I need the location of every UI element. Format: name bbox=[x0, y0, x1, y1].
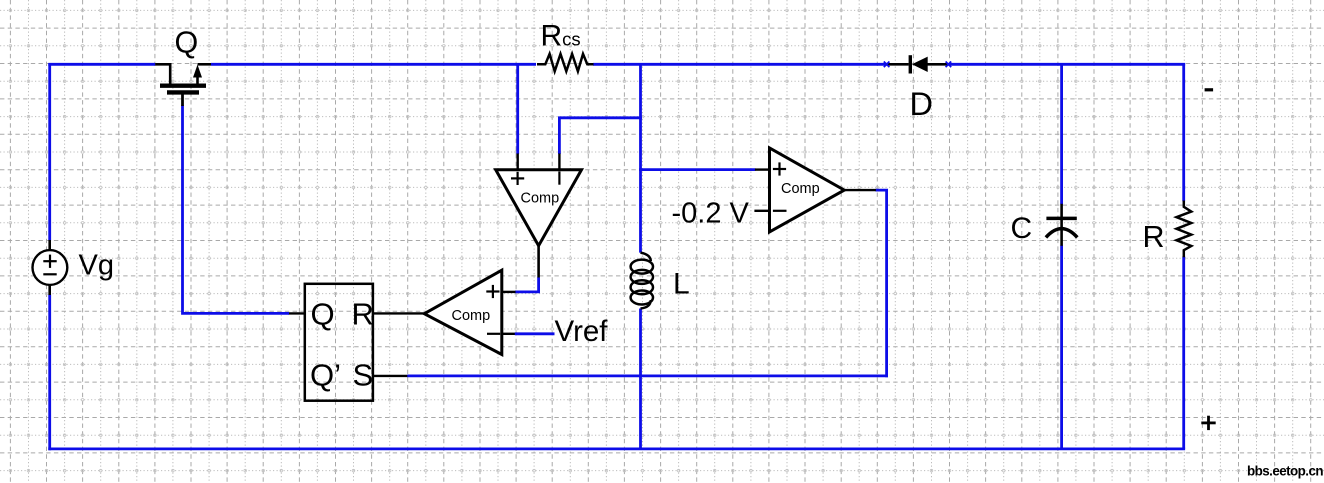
node marker diode cathode bbox=[946, 62, 952, 68]
inductor L bbox=[631, 253, 653, 309]
wire top rail segment 4 bbox=[948, 63, 1185, 66]
wire latch S input line bbox=[373, 375, 408, 377]
transistor Q bbox=[155, 64, 211, 106]
diode D bbox=[887, 55, 948, 73]
SR latch U4 bbox=[305, 284, 373, 401]
svg-text:L: L bbox=[673, 268, 690, 301]
output terminal plus bbox=[1201, 421, 1215, 424]
voltage source Vg bbox=[33, 240, 68, 295]
wire top rail segment 3 bbox=[593, 63, 887, 66]
wire top rail segment 1 bbox=[48, 63, 155, 66]
wire top rail segment 2 bbox=[211, 63, 536, 66]
wire right rail bbox=[1182, 63, 1185, 449]
wire comparator U2 output to latch R bbox=[373, 312, 426, 314]
svg-text:-0.2 V: -0.2 V bbox=[672, 198, 750, 230]
svg-text:Q’: Q’ bbox=[310, 358, 341, 393]
wire comparator U3 plus input bbox=[639, 168, 755, 171]
comparator U2 (points left) bbox=[424, 270, 502, 354]
output terminal minus bbox=[1205, 88, 1214, 91]
wire comparator U3 output down to S line bbox=[875, 190, 888, 378]
wire left rail lower bbox=[48, 295, 51, 451]
wire bottom rail bbox=[48, 447, 1185, 450]
svg-text:Comp: Comp bbox=[452, 308, 491, 324]
wire comparator U1 plus input drop bbox=[516, 64, 519, 154]
comparator U1 (current sense comp, points down) bbox=[496, 170, 582, 246]
svg-text:Vref: Vref bbox=[555, 315, 609, 348]
svg-text:Q: Q bbox=[175, 26, 199, 60]
wire capacitor branch upper bbox=[1060, 63, 1063, 204]
svg-text:Q: Q bbox=[311, 297, 335, 332]
capacitor C bbox=[1046, 204, 1077, 246]
comparator U3 (points right) bbox=[770, 148, 845, 232]
wire capacitor branch lower bbox=[1060, 245, 1063, 449]
svg-text:R: R bbox=[1143, 220, 1165, 254]
wire minus 0.2V to U3 minus input bbox=[754, 210, 769, 212]
resistor R (load) bbox=[1177, 201, 1192, 258]
wire Rcs right sense tap bbox=[558, 116, 642, 154]
node marker diode anode bbox=[884, 62, 890, 68]
svg-text:C: C bbox=[1011, 212, 1033, 245]
svg-text:R: R bbox=[352, 297, 374, 332]
wire latch Q output to transistor gate bbox=[288, 312, 305, 314]
svg-text:bbs.eetop.cn: bbs.eetop.cn bbox=[1247, 464, 1323, 479]
wire inductor branch lower bbox=[639, 309, 642, 449]
svg-text:Comp: Comp bbox=[781, 181, 820, 197]
svg-text:S: S bbox=[353, 358, 374, 393]
resistor Rcs bbox=[537, 54, 594, 71]
wire left rail upper bbox=[48, 63, 51, 241]
svg-text:Vg: Vg bbox=[79, 250, 114, 282]
wire Vref to U2 minus bbox=[502, 333, 516, 335]
svg-text:Comp: Comp bbox=[521, 191, 560, 207]
wire comparator U1 output to U2 plus bbox=[537, 245, 540, 278]
wire inductor branch upper bbox=[639, 64, 642, 252]
svg-text:D: D bbox=[910, 86, 933, 122]
